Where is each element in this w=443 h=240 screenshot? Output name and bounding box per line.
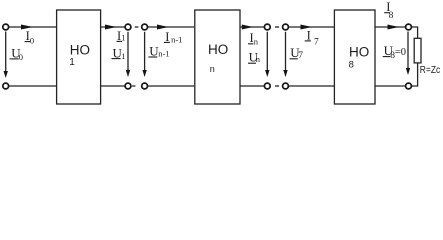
voltage arrow U0 (5, 32, 7, 73)
wire resistor bottom stub (411, 63, 417, 86)
svg-text:0: 0 (30, 36, 34, 46)
terminal circle output bottom (406, 83, 412, 89)
dash top pair2 (275, 26, 279, 28)
block HO1 (57, 10, 101, 104)
current arrow I0 (21, 25, 33, 30)
terminal circle pair1 right top (142, 24, 148, 30)
current arrow I7 (301, 25, 313, 30)
voltage arrow U1 (127, 32, 129, 72)
wire bottom block n to pair2 (240, 85, 264, 87)
wire top block 8 to output (375, 26, 405, 28)
svg-text:R=Zc: R=Zc (420, 65, 440, 76)
wire bottom input (8, 85, 56, 87)
current arrow In-1 (157, 25, 169, 30)
block HO 8 (334, 10, 375, 104)
svg-text:I: I (307, 28, 311, 42)
dash bottom pair2 (275, 85, 279, 87)
svg-text:n: n (210, 64, 215, 74)
svg-text:n-1: n-1 (171, 35, 182, 45)
block HO n (195, 10, 240, 104)
dash bottom pair1 (132, 85, 135, 87)
wire bottom block1 to pair1 (101, 85, 125, 87)
wire top block1 to pair1 (101, 26, 125, 28)
wire output top corner to resistor (411, 27, 417, 38)
voltage arrow Un-1 (144, 32, 146, 72)
svg-text:НО: НО (70, 43, 90, 58)
terminal circle input top (3, 24, 9, 30)
wire top pair2 to block 8 (288, 26, 334, 28)
svg-text:НО: НО (208, 42, 228, 57)
terminal circle pair1 right bottom (142, 83, 148, 89)
svg-text:7: 7 (314, 37, 319, 47)
dash top pair1 (135, 26, 139, 28)
svg-text:0: 0 (19, 52, 23, 62)
terminal circle pair2 right top (283, 24, 289, 30)
wire top block n to pair2 (240, 26, 264, 28)
terminal circle pair2 left top (264, 24, 270, 30)
terminal circle pair1 left top (125, 24, 131, 30)
voltage arrow U8 (407, 32, 409, 70)
voltage arrow U7 (285, 32, 287, 72)
svg-text:n: n (254, 36, 259, 46)
terminal circle pair2 right bottom (283, 83, 289, 89)
wire bottom block 8 to output (375, 85, 405, 87)
svg-text:8: 8 (389, 11, 394, 21)
wire top input (8, 26, 56, 28)
svg-text:n: n (256, 54, 261, 64)
svg-text:1: 1 (121, 32, 125, 42)
svg-text:=0: =0 (395, 47, 406, 58)
resistor R (414, 38, 421, 63)
terminal circle input bottom (3, 83, 9, 89)
svg-text:1: 1 (69, 57, 75, 68)
terminal circle output top (406, 24, 412, 30)
terminal circle pair1 left bottom (125, 83, 131, 89)
svg-text:1: 1 (121, 51, 125, 61)
terminal circle pair2 left bottom (264, 83, 270, 89)
svg-text:НО: НО (349, 45, 369, 60)
current arrow I8 (388, 25, 400, 30)
svg-text:7: 7 (298, 51, 303, 61)
wire bottom pair2 to block 8 (288, 85, 334, 87)
current arrow In (242, 25, 253, 30)
voltage arrow Un (266, 32, 268, 72)
wire top pair1 to block n (148, 26, 195, 28)
svg-text:8: 8 (349, 60, 354, 71)
current arrow I1 (105, 25, 117, 30)
svg-text:n-1: n-1 (158, 49, 169, 59)
wire bottom pair1 to block n (148, 85, 195, 87)
